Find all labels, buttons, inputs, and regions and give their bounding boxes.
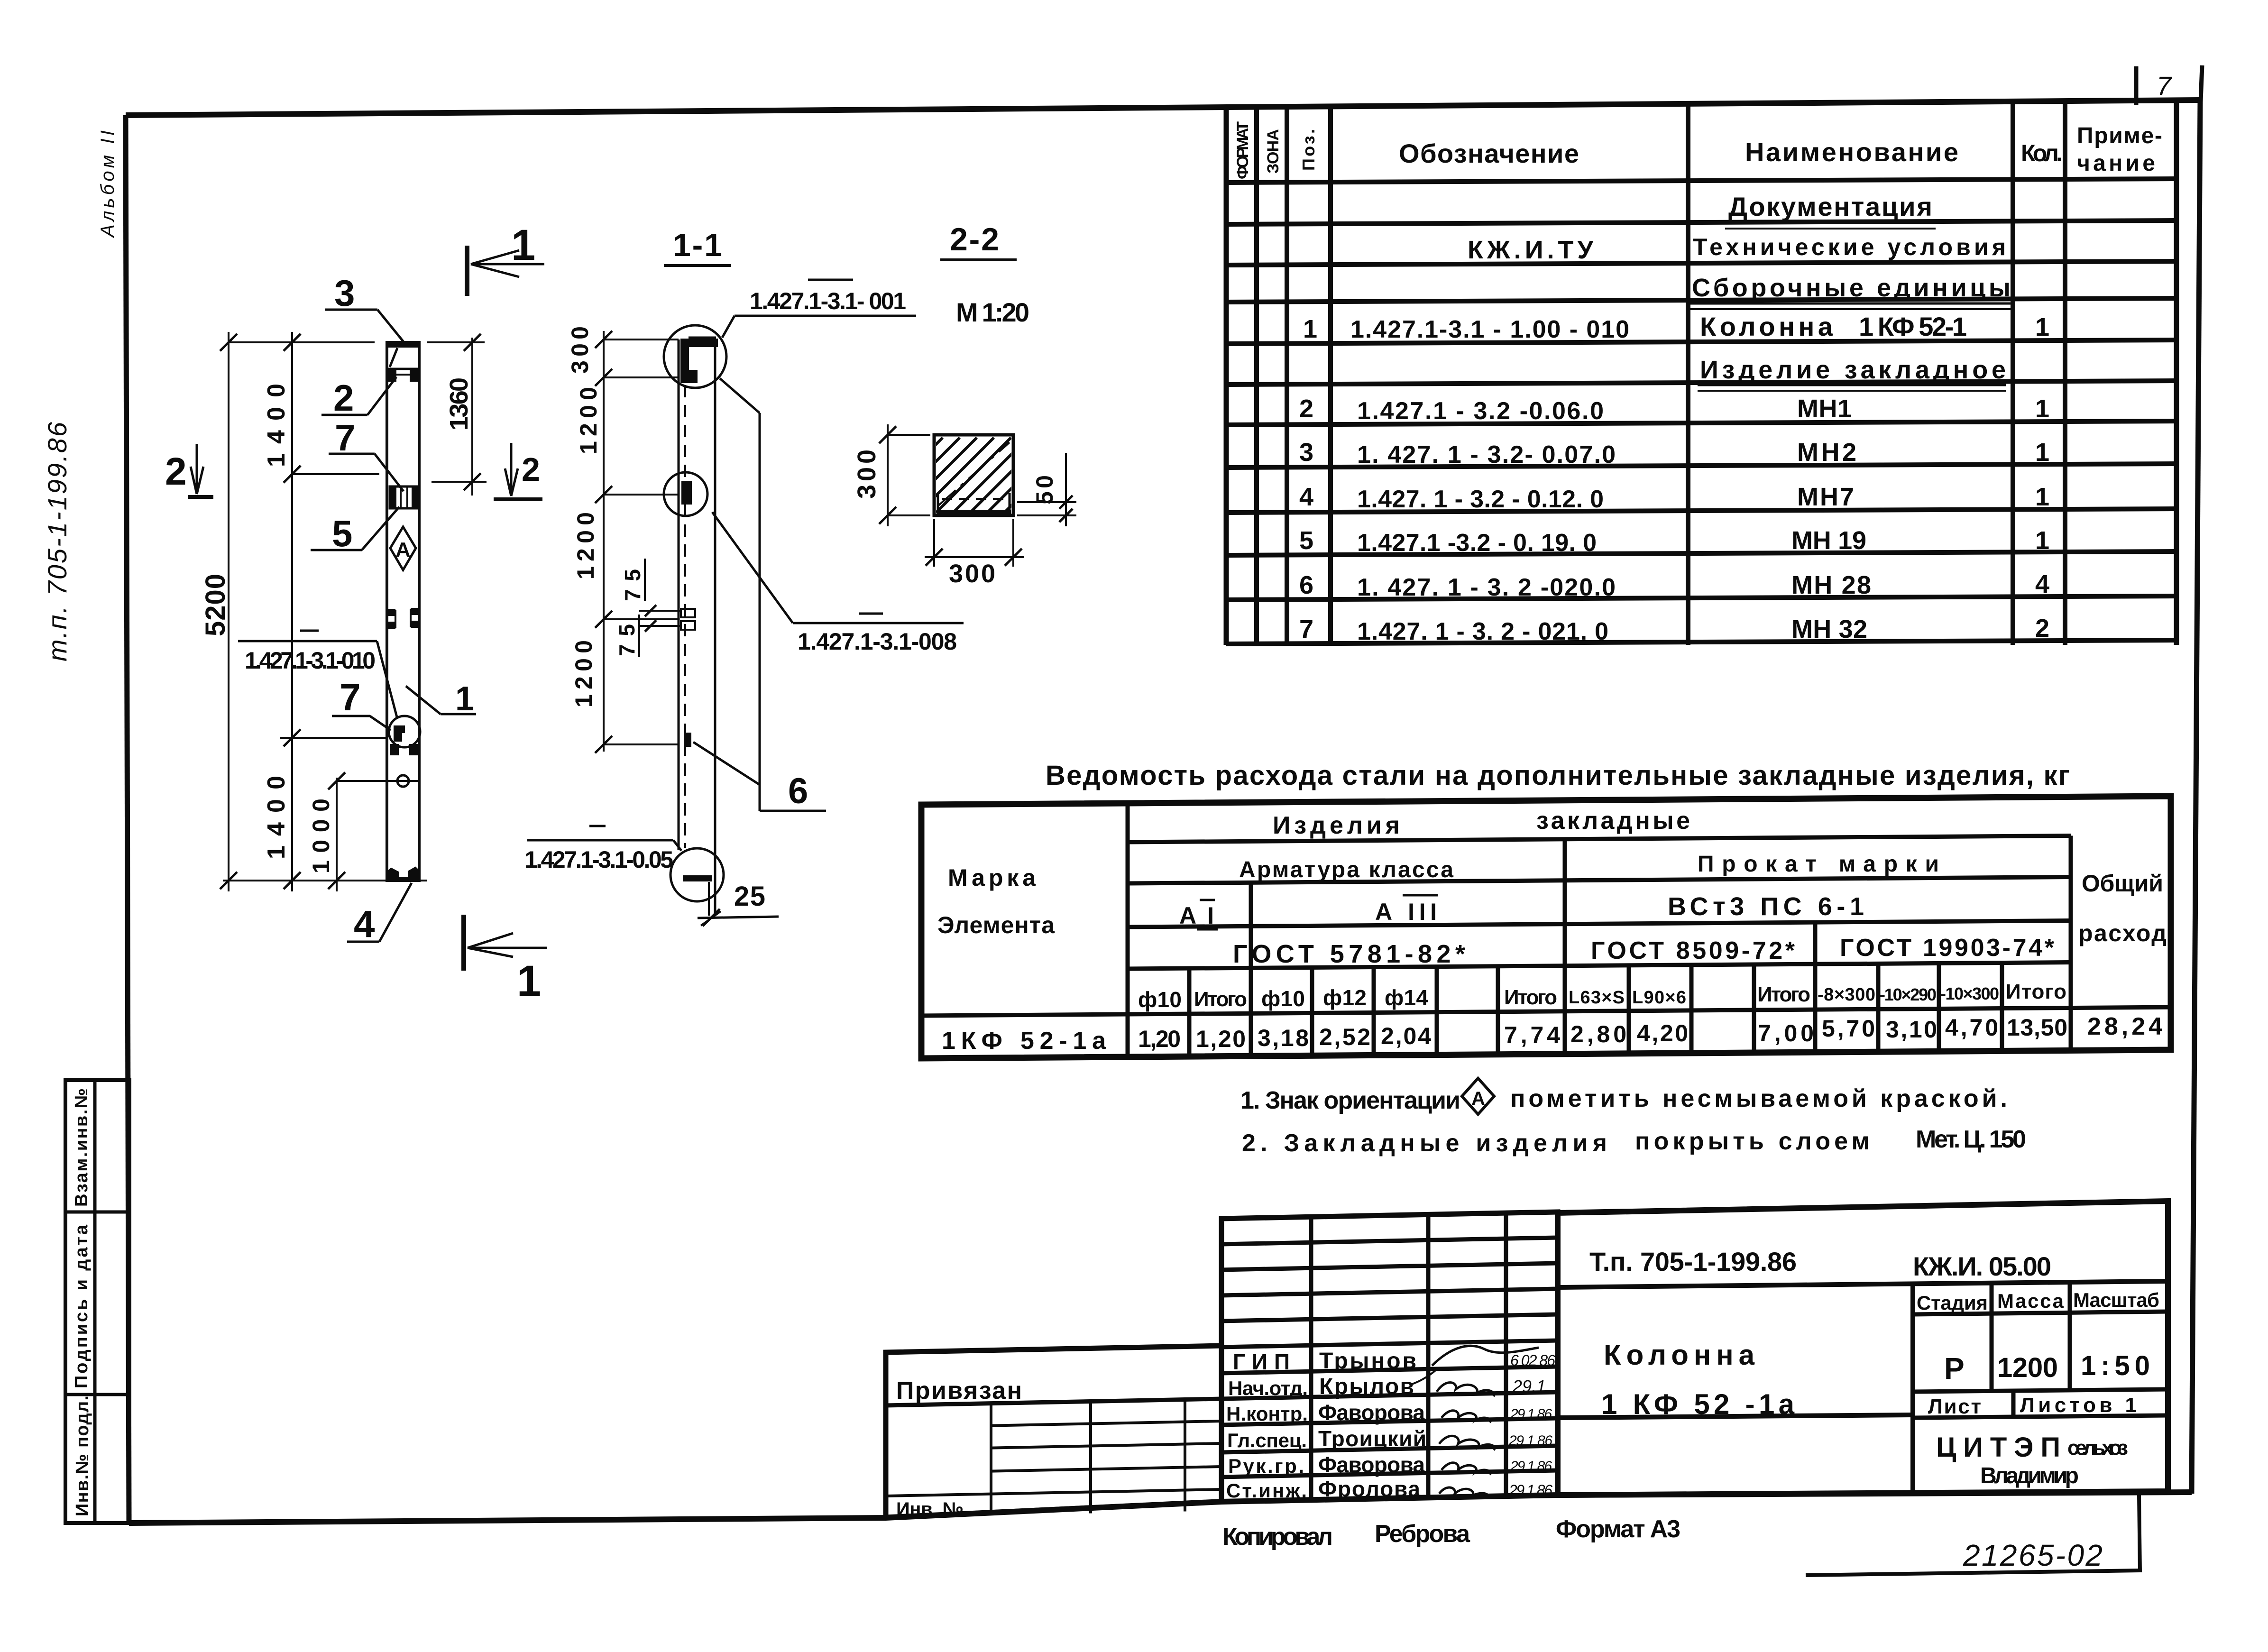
svg-text:25: 25 — [734, 881, 765, 912]
section 2-2 concrete square — [934, 435, 1013, 515]
svg-text:Фролова: Фролова — [1318, 1477, 1420, 1501]
svg-text:Реброва: Реброва — [1375, 1520, 1470, 1548]
title block signature table outer — [1221, 1212, 1558, 1502]
svg-text:Ведомость расхода стали на доп: Ведомость расхода стали на дополнительны… — [1046, 760, 2070, 791]
title block signature table row lines — [1221, 1238, 1558, 1244]
svg-text:1-1: 1-1 — [673, 227, 722, 263]
section 1-1 middle embed plate — [681, 481, 692, 505]
svg-text:5,70: 5,70 — [1822, 1015, 1875, 1042]
privyazan row line under label — [886, 1399, 1221, 1405]
section 1-1 dim chain — [603, 331, 605, 752]
svg-text:Лист: Лист — [1928, 1395, 1981, 1418]
svg-text:ГИП: ГИП — [1233, 1349, 1290, 1374]
column elevation lower embed detail circle — [389, 716, 420, 747]
svg-text:ЗОНА: ЗОНА — [1264, 129, 1282, 174]
section 2-2 dim 50 right — [1065, 453, 1067, 526]
column elevation bottom corner embeds MN7 — [387, 869, 398, 879]
svg-text:МН 32: МН 32 — [1791, 615, 1867, 643]
svg-text:7,00: 7,00 — [1758, 1020, 1814, 1046]
svg-text:1.427.1 -3.2 - 0. 19. 0: 1.427.1 -3.2 - 0. 19. 0 — [1357, 529, 1597, 557]
column elevation small circle lifting hole — [397, 775, 409, 787]
section mark 1 bottom — [461, 915, 466, 971]
svg-text:Общий: Общий — [2082, 870, 2163, 897]
section mark 1 top — [465, 246, 469, 296]
svg-text:МН 28: МН 28 — [1791, 571, 1871, 599]
svg-text:2: 2 — [1299, 395, 1313, 423]
section 1-1 dim 75 75 — [639, 610, 681, 612]
svg-text:Ст.инж.: Ст.инж. — [1226, 1479, 1307, 1502]
leader bracket to label 6 — [720, 378, 760, 413]
svg-text:L63×S: L63×S — [1569, 988, 1625, 1008]
leader label 1.427.1-3.1-001 — [808, 279, 853, 281]
leader label 1.427.1-3.1-010 — [300, 630, 319, 632]
svg-text:6: 6 — [788, 771, 808, 811]
svg-text:ф12: ф12 — [1323, 985, 1367, 1010]
svg-text:Взам.инв.№: Взам.инв.№ — [72, 1088, 92, 1207]
title block kolonna cell divider — [1558, 1415, 1913, 1418]
svg-text:1.427. 1 - 3.2 - 0.12. 0: 1.427. 1 - 3.2 - 0.12. 0 — [1357, 486, 1604, 513]
svg-text:2,04: 2,04 — [1381, 1023, 1431, 1049]
svg-text:-10×290: -10×290 — [1880, 985, 1937, 1004]
svg-text:ф10: ф10 — [1261, 986, 1305, 1011]
left margin cell divider 2 — [65, 1393, 129, 1396]
svg-text:1 КФ 52-1: 1 КФ 52-1 — [1859, 312, 1967, 341]
section mark 2 right — [510, 443, 513, 494]
section 1-1 dim 25 — [698, 917, 779, 918]
svg-text:29.1: 29.1 — [1512, 1377, 1546, 1396]
title block stadia table verticals — [1910, 1284, 1915, 1494]
svg-text:3,18: 3,18 — [1258, 1025, 1309, 1051]
svg-text:4: 4 — [2035, 570, 2049, 598]
svg-text:28,24: 28,24 — [2087, 1013, 2162, 1040]
svg-text:1: 1 — [517, 957, 541, 1005]
svg-text:Т.п. 705-1-199.86: Т.п. 705-1-199.86 — [1589, 1247, 1797, 1276]
svg-text:7: 7 — [335, 417, 355, 459]
section 1-1 top detail circle — [664, 325, 726, 388]
svg-text:1200: 1200 — [1997, 1352, 2058, 1383]
svg-text:1КФ 52-1а: 1КФ 52-1а — [942, 1027, 1106, 1055]
svg-text:Мет. Ц. 150: Мет. Ц. 150 — [1916, 1126, 2026, 1153]
svg-text:Кол.: Кол. — [2021, 140, 2063, 166]
svg-text:2-2: 2-2 — [950, 221, 999, 257]
section 2-2 dim 300 left — [887, 424, 889, 526]
left margin cell divider 1 — [65, 1211, 129, 1214]
sheet frame top border — [126, 100, 2200, 115]
svg-text:-8×300: -8×300 — [1818, 985, 1875, 1005]
svg-text:1: 1 — [2035, 526, 2049, 555]
svg-text:1.427. 1 - 3. 2 - 021. 0: 1.427. 1 - 3. 2 - 021. 0 — [1357, 618, 1608, 645]
svg-text:расход: расход — [2078, 920, 2167, 946]
svg-text:4: 4 — [354, 903, 375, 945]
sheet frame left border — [126, 115, 129, 1523]
svg-text:ФОРМАТ: ФОРМАТ — [1234, 121, 1252, 179]
svg-text:2: 2 — [333, 377, 354, 419]
sheet frame bottom border — [129, 1492, 2192, 1523]
svg-text:29.1.86: 29.1.86 — [1508, 1482, 1552, 1499]
spec table row lines — [1226, 179, 2176, 183]
section 1-1 bottom plate — [683, 875, 712, 881]
svg-text:1.427.1-3.1 - 1.00 - 010: 1.427.1-3.1 - 1.00 - 010 — [1350, 316, 1629, 343]
svg-text:Фаворова: Фаворова — [1318, 1400, 1425, 1425]
svg-text:т.п. 705-1-199.86: т.п. 705-1-199.86 — [42, 422, 72, 661]
svg-text:ГОСТ 5781-82*: ГОСТ 5781-82* — [1233, 940, 1465, 968]
svg-text:6: 6 — [1299, 571, 1313, 599]
svg-text:4,20: 4,20 — [1637, 1020, 1688, 1046]
svg-text:ГОСТ 19903-74*: ГОСТ 19903-74* — [1840, 934, 2055, 962]
svg-text:2: 2 — [522, 451, 540, 488]
svg-text:29 1 86: 29 1 86 — [1508, 1433, 1552, 1449]
elevation dim line 5200 — [228, 332, 230, 891]
section 1-1 column edges — [678, 340, 680, 850]
svg-text:5200: 5200 — [200, 574, 231, 636]
svg-text:2: 2 — [2035, 614, 2049, 642]
svg-text:Наименование: Наименование — [1745, 137, 1958, 167]
svg-text:Колонна: Колонна — [1700, 312, 1833, 341]
svg-text:Масса: Масса — [1997, 1290, 2064, 1312]
elevation dim chain line — [291, 332, 293, 891]
elevation dim 1400 bottom — [280, 737, 387, 739]
svg-text:Инв. №: Инв. № — [896, 1499, 964, 1520]
svg-text:Масштаб: Масштаб — [2073, 1289, 2159, 1311]
svg-text:-10×300: -10×300 — [1940, 984, 1999, 1003]
title block list row lines — [1913, 1389, 2168, 1392]
svg-text:Н.контр.: Н.контр. — [1226, 1403, 1308, 1425]
left margin table outer box — [65, 1080, 129, 1523]
title block tp row divider — [1558, 1281, 2168, 1287]
svg-text:13,50: 13,50 — [2007, 1014, 2067, 1041]
svg-text:сельхоз: сельхоз — [2067, 1436, 2128, 1459]
svg-text:Марка: Марка — [948, 864, 1036, 891]
svg-text:МН7: МН7 — [1797, 483, 1854, 511]
leader label 1.427.1-3.1-0.05 — [589, 825, 606, 827]
svg-text:5: 5 — [1299, 526, 1313, 555]
svg-text:ГОСТ 8509-72*: ГОСТ 8509-72* — [1591, 937, 1795, 964]
svg-text:А: А — [395, 538, 411, 561]
svg-text:Фаворова: Фаворова — [1318, 1452, 1425, 1477]
column elevation mid embeds MN28 — [388, 609, 395, 616]
svg-text:2: 2 — [165, 450, 187, 493]
elevation dim 1000 — [336, 778, 338, 891]
svg-text:29 1 86: 29 1 86 — [1510, 1406, 1552, 1422]
svg-text:Документация: Документация — [1728, 192, 1932, 221]
svg-text:7,74: 7,74 — [1504, 1022, 1560, 1048]
title block stadia header underline — [1913, 1312, 2168, 1314]
svg-text:3,10: 3,10 — [1886, 1016, 1937, 1043]
svg-text:Стадия: Стадия — [1917, 1292, 1988, 1314]
left margin divider vertical — [93, 1080, 97, 1523]
outer sheet corner horizontal line bottom right — [1806, 1570, 2140, 1575]
section 1-1 middle detail circle — [664, 472, 707, 516]
svg-text:3: 3 — [334, 272, 355, 314]
svg-text:Итого: Итого — [1194, 988, 1247, 1011]
svg-text:Инв.№ подл.: Инв.№ подл. — [73, 1395, 92, 1516]
svg-text:Элемента: Элемента — [937, 912, 1055, 938]
section 1-1 small embed plate lowest — [684, 733, 691, 747]
elevation bottom extension line — [223, 880, 427, 881]
svg-text:1: 1 — [455, 680, 474, 718]
section 1-1 bottom detail circle — [670, 848, 724, 901]
svg-text:1. Знак ориентации: 1. Знак ориентации — [1240, 1087, 1460, 1114]
steel table outer box — [921, 796, 2171, 1058]
section 2-2 centerline diagonal — [938, 442, 1010, 506]
svg-text:300: 300 — [853, 450, 881, 499]
sheet frame right border extension above top — [2201, 65, 2202, 102]
svg-text:Сборочные единицы: Сборочные единицы — [1692, 274, 2011, 302]
privyazan block outer — [886, 1346, 1221, 1517]
elevation dim 1400 top — [292, 473, 379, 475]
svg-text:Колонна: Колонна — [1604, 1339, 1755, 1371]
svg-text:4,70: 4,70 — [1945, 1014, 1998, 1041]
svg-text:ЦИТЭП: ЦИТЭП — [1936, 1432, 2060, 1463]
svg-text:ф10: ф10 — [1138, 987, 1182, 1012]
svg-text:21265-02: 21265-02 — [1963, 1538, 2103, 1572]
svg-text:1360: 1360 — [445, 377, 473, 431]
svg-text:МН1: МН1 — [1797, 395, 1852, 423]
column elevation orientation diamond A — [390, 527, 416, 570]
svg-text:Итого: Итого — [2006, 980, 2066, 1003]
svg-text:2. Закладные изделия: 2. Закладные изделия — [1242, 1129, 1607, 1157]
leader label 1.427.1-3.1-008 — [859, 613, 883, 615]
svg-text:6 02 86: 6 02 86 — [1510, 1352, 1555, 1369]
svg-text:1,20: 1,20 — [1196, 1026, 1246, 1052]
svg-text:1.427.1-3.1- 001: 1.427.1-3.1- 001 — [750, 288, 906, 314]
svg-text:300: 300 — [567, 326, 593, 374]
sheet frame right border — [2192, 100, 2200, 1494]
svg-text:МН2: МН2 — [1797, 438, 1856, 467]
svg-text:7: 7 — [1299, 615, 1313, 643]
note 1 orientation diamond — [1462, 1078, 1494, 1114]
privyazan grid horizontals — [991, 1421, 1221, 1426]
column elevation embed box MN19 — [390, 486, 418, 508]
svg-text:5: 5 — [332, 513, 352, 554]
svg-text:300: 300 — [949, 560, 995, 588]
svg-text:2,80: 2,80 — [1570, 1021, 1626, 1047]
section 2-2 bottom corner angles — [938, 493, 954, 511]
title block signature table verticals — [1309, 1217, 1313, 1500]
svg-text:закладные: закладные — [1536, 807, 1690, 835]
svg-text:L90×6: L90×6 — [1632, 988, 1686, 1008]
svg-text:Приме-: Приме- — [2077, 123, 2162, 148]
svg-text:Владимир: Владимир — [1980, 1463, 2079, 1488]
section 2-2 hatching — [868, 438, 943, 513]
svg-text:1: 1 — [1303, 315, 1317, 343]
svg-text:Р: Р — [1944, 1351, 1965, 1386]
svg-text:1: 1 — [2035, 438, 2049, 467]
svg-text:МН 19: МН 19 — [1791, 526, 1866, 555]
elevation dim 1360 right — [471, 338, 473, 496]
svg-text:Нач.отд.: Нач.отд. — [1228, 1377, 1308, 1399]
steel table row lines — [1128, 836, 2071, 843]
svg-text:7: 7 — [340, 676, 361, 718]
svg-text:7: 7 — [2157, 71, 2172, 101]
svg-text:Итого: Итого — [1757, 983, 1810, 1006]
outer sheet corner vertical line bottom right — [2139, 1495, 2140, 1572]
svg-text:КЖ.И. 05.00: КЖ.И. 05.00 — [1913, 1251, 2051, 1281]
section 2-2 dim 300 bottom — [925, 556, 1024, 558]
section 2-2 bottom plate — [937, 510, 1011, 514]
section mark 2 left — [196, 444, 198, 492]
svg-text:Формат А3: Формат А3 — [1556, 1515, 1680, 1543]
svg-text:29 1 86: 29 1 86 — [1510, 1459, 1552, 1474]
svg-text:1.427.1-3.1-0.05: 1.427.1-3.1-0.05 — [524, 846, 673, 873]
column elevation top plate MN2 — [387, 343, 419, 348]
section 1-1 top embed angle MN1 — [681, 340, 717, 382]
svg-text:1: 1 — [2035, 313, 2049, 341]
spec table column lines — [1224, 107, 1229, 645]
svg-text:М 1:20: М 1:20 — [956, 297, 1029, 327]
steel table verticals — [1126, 803, 1130, 1057]
svg-text:Копировал: Копировал — [1222, 1523, 1333, 1551]
svg-text:Троицкий: Троицкий — [1318, 1426, 1426, 1451]
svg-text:1.427.1-3.1-008: 1.427.1-3.1-008 — [798, 628, 957, 655]
svg-text:2,52: 2,52 — [1319, 1024, 1370, 1050]
section 1-1 lower double plate — [681, 609, 695, 617]
page number tick top right — [2134, 66, 2139, 105]
privyazan grid verticals — [990, 1404, 992, 1515]
column elevation embed marks MN1 below cap — [388, 370, 396, 382]
svg-text:Итого: Итого — [1504, 986, 1557, 1009]
svg-text:4: 4 — [1299, 483, 1313, 511]
svg-text:1.427.1-3.1-010: 1.427.1-3.1-010 — [245, 647, 376, 674]
svg-text:Обозначение: Обозначение — [1399, 138, 1579, 168]
svg-text:3: 3 — [1299, 438, 1313, 467]
svg-text:1: 1 — [2035, 395, 2049, 423]
svg-text:Гл.спец.: Гл.спец. — [1227, 1429, 1307, 1451]
section 1-1 ground below — [708, 882, 710, 916]
svg-text:Изделие закладное: Изделие закладное — [1700, 356, 2006, 384]
svg-text:1: 1 — [2035, 483, 2049, 511]
svg-text:А: А — [1471, 1088, 1485, 1109]
column elevation body — [387, 342, 419, 881]
svg-text:Привязан: Привязан — [896, 1377, 1022, 1404]
svg-text:Подпись и дата: Подпись и дата — [72, 1224, 92, 1388]
svg-text:1,20: 1,20 — [1138, 1026, 1181, 1052]
svg-text:чание: чание — [2077, 151, 2155, 176]
svg-text:1: 1 — [511, 221, 535, 269]
svg-text:1:50: 1:50 — [2081, 1350, 2150, 1381]
title block main box — [1558, 1201, 2168, 1495]
svg-text:ф14: ф14 — [1385, 985, 1428, 1010]
